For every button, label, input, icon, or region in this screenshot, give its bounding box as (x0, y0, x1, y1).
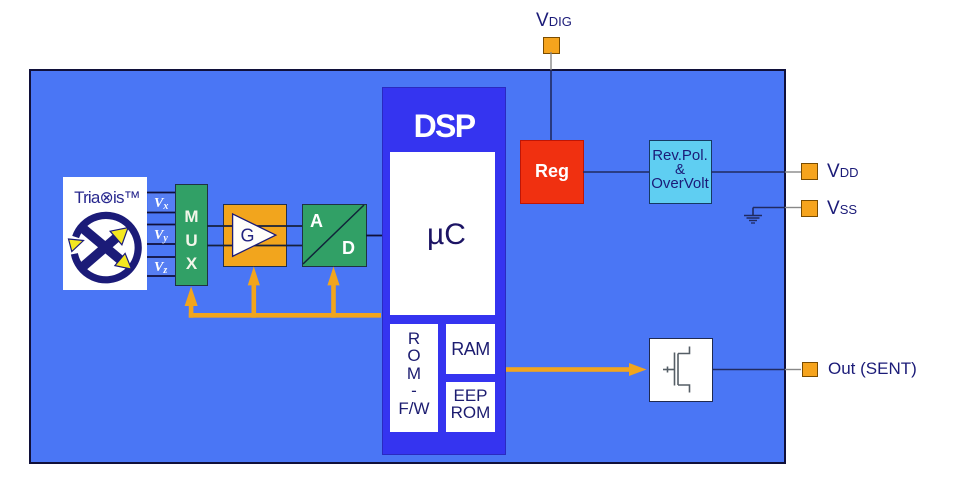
wire VDIG to Reg (550, 70, 552, 140)
pin VDD pad (801, 163, 818, 180)
signal band Vx (148, 194, 175, 212)
wire Vy pair (147, 225, 175, 245)
amplifier G triangle (233, 214, 276, 256)
Rev.Pol & OverVolt block (649, 140, 712, 204)
pin OUT pad (802, 362, 818, 377)
EEPROM block (446, 382, 495, 432)
arrow DSP to transistor (506, 363, 647, 376)
label VSS (827, 198, 857, 220)
wire Reg to Rev.Pol (583, 171, 649, 173)
RAM label (446, 339, 495, 360)
Triaxis logo text (65, 188, 149, 208)
DSP block (382, 87, 506, 455)
Triaxis logo arrow NE (110, 228, 128, 245)
wire boundary to VDD pad (785, 171, 801, 173)
wire MUX to A/D lower (crosses G block) (207, 245, 302, 247)
pin VSS pad (801, 200, 818, 217)
Reg label (520, 162, 584, 180)
svg-text:G: G (241, 226, 255, 246)
feedback arrow to MUX (185, 287, 198, 318)
D label (342, 238, 355, 259)
label VDIG (536, 10, 572, 32)
MUX label (175, 205, 208, 276)
Triaxis logo arrow SE (115, 253, 132, 269)
Triaxis logo bar down-right (83, 229, 120, 260)
RAM block (446, 324, 495, 374)
wire VDIG pad to boundary (550, 52, 552, 70)
label Out (SENT) (828, 359, 917, 379)
uC block (390, 152, 495, 315)
feedback arrow to G (248, 267, 260, 318)
Triaxis logo bar up-right (79, 238, 116, 270)
uC label (394, 220, 499, 250)
wire Vx pair (147, 193, 175, 213)
DSP label (382, 110, 506, 142)
wire A/D to DSP (366, 235, 382, 237)
Triaxis sensor block (63, 177, 147, 290)
ROM-F/W label (390, 330, 438, 418)
pin VDIG pad (543, 37, 560, 54)
ROM-F/W block (390, 324, 438, 432)
signal band Vy (148, 226, 175, 244)
wire transistor to boundary (712, 369, 785, 371)
wire MUX to A/D upper (crosses G block) (207, 225, 302, 227)
wire VSS pad to ground (785, 207, 801, 209)
ground (744, 216, 762, 224)
label VDD (827, 161, 858, 183)
Rev.Pol & OverVolt label (645, 149, 715, 192)
feedback bus horizontal (189, 313, 381, 318)
chip boundary box (29, 69, 786, 464)
A/D diagonal (303, 205, 364, 264)
signal band Vz (148, 258, 175, 275)
Triaxis logo ring (74, 215, 138, 279)
feedback arrow to A/D (327, 267, 339, 318)
Reg block (520, 140, 584, 204)
amplifier G block (223, 204, 287, 267)
wire boundary to OUT pad (785, 369, 801, 371)
transistor Q1 mosfet symbol (663, 347, 690, 393)
wire Vz pair (147, 257, 175, 276)
A label (310, 211, 323, 232)
Triaxis logo arrow W (69, 239, 84, 252)
EEPROM label (446, 388, 495, 422)
A/D converter block (302, 204, 367, 267)
MUX block (175, 184, 208, 286)
wire Rev.Pol to boundary (711, 171, 785, 173)
output transistor block (649, 338, 713, 402)
